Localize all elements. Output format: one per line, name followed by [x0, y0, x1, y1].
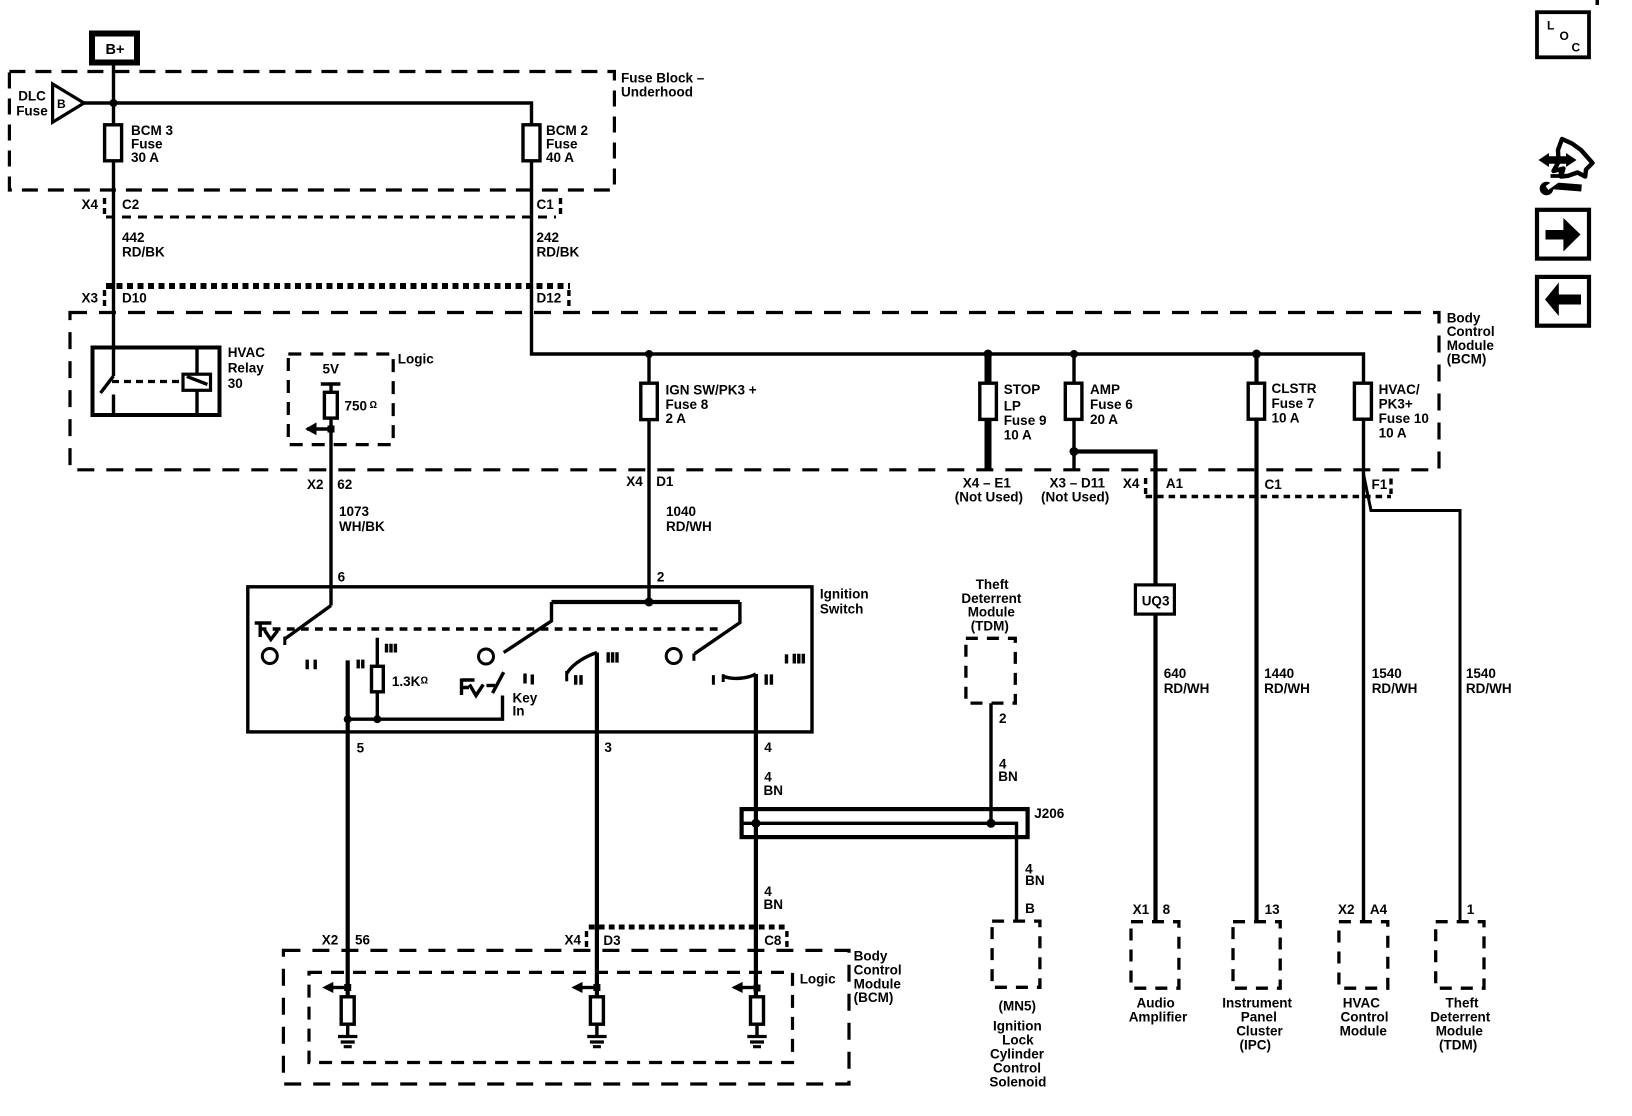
- svg-text:D1: D1: [656, 474, 674, 489]
- svg-text:BN: BN: [764, 783, 784, 798]
- svg-text:Panel: Panel: [1241, 1009, 1277, 1024]
- svg-text:Solenoid: Solenoid: [989, 1074, 1046, 1089]
- svg-text:C2: C2: [122, 197, 139, 212]
- svg-text:(Not Used): (Not Used): [955, 490, 1023, 505]
- svg-text:X4: X4: [82, 197, 99, 212]
- svg-text:Module: Module: [968, 605, 1016, 620]
- svg-text:LP: LP: [1004, 398, 1021, 413]
- svg-text:RD/WH: RD/WH: [1264, 681, 1310, 696]
- svg-text:Relay: Relay: [228, 361, 265, 376]
- svg-text:2: 2: [657, 570, 665, 585]
- svg-text:UQ3: UQ3: [1142, 594, 1170, 609]
- svg-text:Ω: Ω: [421, 676, 429, 687]
- svg-text:B+: B+: [106, 42, 125, 58]
- svg-text:Switch: Switch: [820, 602, 864, 617]
- svg-text:(TDM): (TDM): [971, 618, 1009, 633]
- svg-text:Theft: Theft: [1446, 995, 1479, 1010]
- svg-text:4: 4: [764, 769, 772, 784]
- svg-text:(IPC): (IPC): [1240, 1037, 1272, 1052]
- svg-text:A1: A1: [1166, 476, 1184, 491]
- svg-text:5: 5: [357, 741, 365, 756]
- svg-text:Ignition: Ignition: [993, 1018, 1042, 1033]
- svg-text:10 A: 10 A: [1272, 410, 1300, 425]
- svg-text:RD/WH: RD/WH: [1164, 681, 1210, 696]
- svg-text:3: 3: [604, 740, 612, 755]
- svg-text:Instrument: Instrument: [1222, 995, 1292, 1010]
- svg-text:IGN SW/PK3 +: IGN SW/PK3 +: [666, 383, 757, 398]
- svg-text:X2: X2: [322, 933, 339, 948]
- svg-text:640: 640: [1164, 666, 1187, 681]
- svg-text:X4: X4: [565, 933, 582, 948]
- svg-text:Logic: Logic: [398, 352, 434, 367]
- svg-text:RD/WH: RD/WH: [1372, 681, 1418, 696]
- svg-text:242: 242: [537, 230, 560, 245]
- svg-text:STOP: STOP: [1004, 382, 1041, 397]
- svg-text:BN: BN: [998, 769, 1018, 784]
- svg-text:C1: C1: [537, 197, 555, 212]
- svg-text:Module: Module: [1340, 1023, 1388, 1038]
- svg-text:BN: BN: [764, 897, 784, 912]
- svg-text:Ignition: Ignition: [820, 587, 869, 602]
- svg-text:Module: Module: [854, 976, 902, 991]
- svg-text:6: 6: [338, 570, 346, 585]
- svg-text:(MN5): (MN5): [999, 998, 1037, 1013]
- svg-text:30 A: 30 A: [131, 150, 159, 165]
- svg-text:B: B: [1025, 901, 1035, 916]
- svg-text:B: B: [57, 97, 66, 111]
- svg-text:1.3K: 1.3K: [392, 674, 421, 689]
- svg-text:Lock: Lock: [1002, 1032, 1034, 1047]
- svg-text:Theft: Theft: [976, 577, 1009, 592]
- svg-text:Control: Control: [854, 963, 902, 978]
- svg-text:Control: Control: [1341, 1009, 1389, 1024]
- svg-text:Control: Control: [993, 1060, 1041, 1075]
- svg-text:Fuse 7: Fuse 7: [1272, 396, 1315, 411]
- svg-text:HVAC: HVAC: [1343, 995, 1381, 1010]
- svg-text:13: 13: [1265, 902, 1281, 917]
- svg-text:RD/WH: RD/WH: [666, 519, 712, 534]
- svg-text:RD/BK: RD/BK: [122, 245, 165, 260]
- svg-text:2: 2: [999, 711, 1007, 726]
- svg-text:L: L: [1547, 19, 1554, 33]
- svg-text:HVAC/: HVAC/: [1379, 382, 1420, 397]
- svg-text:PK3+: PK3+: [1379, 396, 1413, 411]
- svg-text:Deterrent: Deterrent: [1430, 1009, 1491, 1024]
- svg-text:F1: F1: [1372, 477, 1388, 492]
- svg-text:X4: X4: [1123, 476, 1140, 491]
- svg-text:Module: Module: [1436, 1023, 1484, 1038]
- svg-text:X2: X2: [307, 477, 324, 492]
- svg-text:4: 4: [764, 740, 772, 755]
- svg-text:442: 442: [122, 230, 145, 245]
- svg-text:In: In: [513, 704, 525, 719]
- svg-text:O: O: [1560, 29, 1569, 43]
- svg-text:62: 62: [337, 477, 352, 492]
- svg-text:X4: X4: [626, 474, 643, 489]
- svg-text:10 A: 10 A: [1004, 428, 1032, 443]
- svg-text:Audio: Audio: [1137, 995, 1175, 1010]
- svg-text:J206: J206: [1034, 806, 1065, 821]
- svg-text:D3: D3: [603, 933, 621, 948]
- svg-text:RD/BK: RD/BK: [537, 245, 580, 260]
- svg-text:BN: BN: [1025, 873, 1045, 888]
- svg-text:20 A: 20 A: [1090, 412, 1118, 427]
- svg-text:Cylinder: Cylinder: [990, 1046, 1045, 1061]
- svg-text:1040: 1040: [666, 504, 696, 519]
- svg-text:WH/BK: WH/BK: [339, 519, 385, 534]
- svg-text:56: 56: [355, 933, 371, 948]
- svg-text:DLC: DLC: [18, 89, 46, 104]
- svg-text:40 A: 40 A: [546, 150, 574, 165]
- svg-text:CLSTR: CLSTR: [1272, 381, 1317, 396]
- svg-text:8: 8: [1163, 902, 1171, 917]
- svg-text:10 A: 10 A: [1379, 426, 1407, 441]
- svg-text:2 A: 2 A: [666, 411, 687, 426]
- svg-text:(TDM): (TDM): [1439, 1037, 1477, 1052]
- svg-text:D12: D12: [537, 290, 562, 305]
- svg-text:Deterrent: Deterrent: [961, 591, 1022, 606]
- svg-text:(Not Used): (Not Used): [1041, 490, 1109, 505]
- svg-text:1440: 1440: [1264, 666, 1294, 681]
- svg-text:C: C: [1572, 41, 1581, 55]
- svg-text:D10: D10: [122, 290, 147, 305]
- svg-text:Ω: Ω: [370, 400, 378, 411]
- svg-text:AMP: AMP: [1090, 382, 1120, 397]
- svg-text:X3: X3: [82, 290, 99, 305]
- svg-text:C8: C8: [764, 933, 782, 948]
- svg-text:5V: 5V: [323, 362, 340, 377]
- svg-text:750: 750: [345, 399, 368, 414]
- svg-text:Fuse 8: Fuse 8: [666, 397, 709, 412]
- svg-text:1: 1: [1467, 902, 1475, 917]
- svg-text:1073: 1073: [339, 504, 370, 519]
- svg-text:Fuse 10: Fuse 10: [1379, 411, 1429, 426]
- svg-text:30: 30: [228, 376, 243, 391]
- svg-text:Fuse: Fuse: [16, 104, 48, 119]
- svg-text:C1: C1: [1265, 477, 1283, 492]
- svg-text:X2: X2: [1338, 902, 1355, 917]
- svg-text:Fuse Block –: Fuse Block –: [621, 71, 705, 86]
- svg-text:1540: 1540: [1372, 666, 1402, 681]
- svg-text:A4: A4: [1370, 902, 1388, 917]
- svg-text:Body: Body: [854, 949, 888, 964]
- svg-text:X3 – D11: X3 – D11: [1050, 476, 1106, 491]
- svg-text:(BCM): (BCM): [854, 990, 894, 1005]
- svg-text:Amplifier: Amplifier: [1129, 1009, 1188, 1024]
- svg-text:RD/WH: RD/WH: [1466, 681, 1512, 696]
- svg-text:Cluster: Cluster: [1236, 1023, 1283, 1038]
- svg-text:Logic: Logic: [800, 972, 836, 987]
- svg-text:1540: 1540: [1466, 666, 1496, 681]
- svg-text:Underhood: Underhood: [621, 85, 693, 100]
- svg-text:Fuse 9: Fuse 9: [1004, 413, 1047, 428]
- svg-text:X1: X1: [1133, 902, 1150, 917]
- svg-text:HVAC: HVAC: [228, 345, 266, 360]
- svg-text:(BCM): (BCM): [1447, 352, 1487, 367]
- svg-text:Fuse 6: Fuse 6: [1090, 397, 1133, 412]
- svg-text:X4 – E1: X4 – E1: [963, 476, 1012, 491]
